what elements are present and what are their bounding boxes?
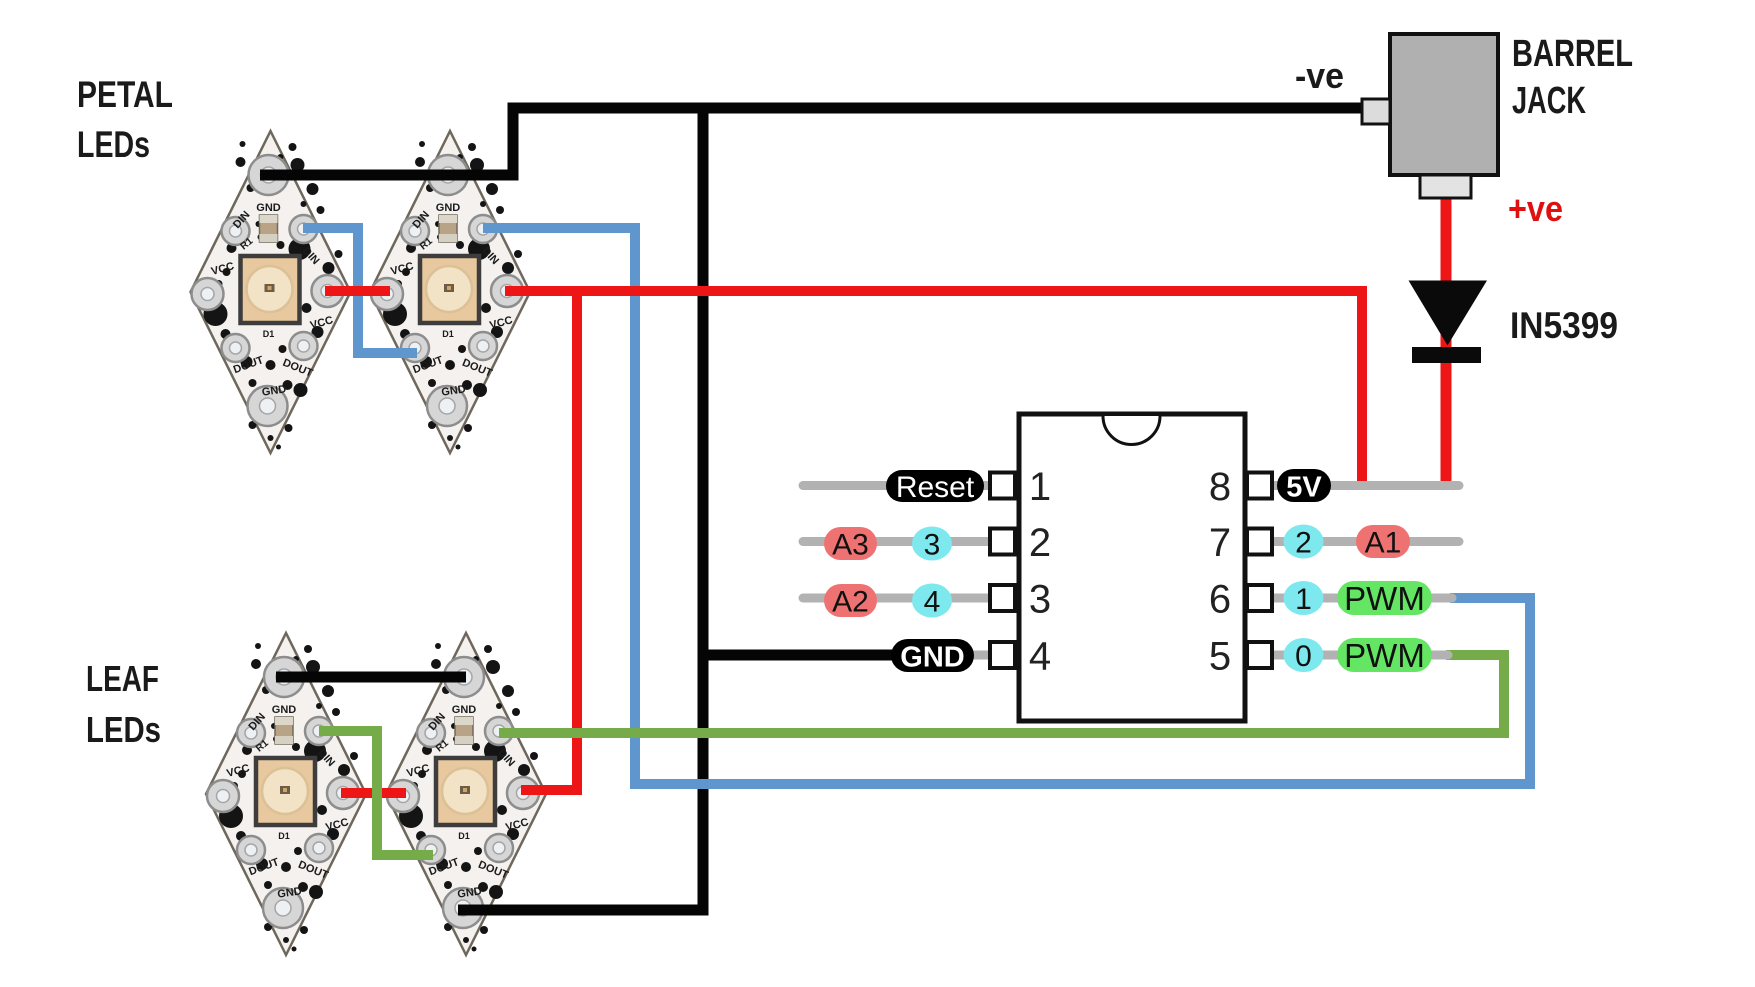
svg-text:LEDs: LEDs <box>86 709 161 750</box>
svg-text:1: 1 <box>1029 465 1051 509</box>
svg-text:A1: A1 <box>1365 527 1402 560</box>
wire red leaf1 VCC to leaf2 VCC <box>341 788 406 798</box>
label digital 4 <box>912 584 952 619</box>
pin square 8 <box>1247 473 1272 499</box>
gray lead pin4 <box>900 651 995 660</box>
svg-text:GND: GND <box>900 642 964 674</box>
svg-text:1: 1 <box>1295 583 1312 616</box>
wire red branch to leaf2 VCC <box>521 286 577 790</box>
svg-text:7: 7 <box>1209 521 1231 565</box>
svg-text:4: 4 <box>1029 635 1051 679</box>
gray lead pin2 <box>803 537 995 546</box>
IC body U1 ATtiny85 <box>1019 414 1245 721</box>
IC notch <box>1103 416 1160 445</box>
gray lead pin3 <box>803 594 995 603</box>
pin square 7 <box>1247 529 1272 555</box>
svg-text:BARREL: BARREL <box>1512 33 1633 75</box>
label digital 2 <box>1284 525 1324 560</box>
wire black bottom to leaf2 GND <box>458 905 709 916</box>
wire red petal2 VCC to 5V rail <box>505 291 1362 484</box>
wire black GND petal1 to barrel jack -ve <box>260 108 1367 175</box>
label A1 <box>1356 525 1410 560</box>
LED board petal 2 <box>370 131 530 453</box>
gray lead pin1 <box>803 481 995 490</box>
wire black leaf1 GND to leaf2 GND <box>276 672 466 683</box>
label Reset <box>886 470 984 504</box>
svg-text:8: 8 <box>1209 465 1231 509</box>
barrel jack body <box>1390 34 1498 175</box>
label A3 <box>824 527 877 562</box>
label 5V <box>1277 469 1331 504</box>
pin square 4 <box>990 642 1015 668</box>
label PWM pin6 <box>1337 580 1432 617</box>
svg-text:Reset: Reset <box>896 471 975 504</box>
wire black GND stub to IC pin4 <box>700 650 895 661</box>
gray lead pin7 <box>1273 537 1459 546</box>
label PWM pin5 <box>1337 637 1432 674</box>
svg-text:PETAL: PETAL <box>77 74 173 115</box>
svg-text:3: 3 <box>924 529 941 562</box>
wire red petal1 VCC to petal2 VCC <box>325 286 390 296</box>
label digital 0 <box>1284 638 1324 673</box>
svg-text:4: 4 <box>924 586 941 619</box>
barrel jack bottom pin <box>1420 175 1471 198</box>
svg-text:5: 5 <box>1209 635 1231 679</box>
wire blue petal1 DIN to petal2 DOUT <box>303 228 417 353</box>
wire black GND trunk vertical <box>698 103 709 910</box>
svg-text:LEAF: LEAF <box>86 658 159 699</box>
wire green leaf2 DIN to IC pin5 PWM <box>499 655 1504 733</box>
label GND <box>891 639 974 674</box>
svg-text:-ve: -ve <box>1295 55 1344 96</box>
svg-text:2: 2 <box>1029 521 1051 565</box>
LED board leaf 2 <box>386 633 546 955</box>
pin square 2 <box>990 529 1015 555</box>
gray lead pin5 <box>1273 651 1448 660</box>
pin square 6 <box>1247 585 1272 611</box>
LED board petal 1 <box>191 131 351 453</box>
svg-text:PWM: PWM <box>1344 637 1425 674</box>
barrel jack left pin <box>1362 99 1390 124</box>
diode IN5399 cathode bar <box>1412 347 1481 363</box>
diode IN5399 triangle <box>1409 281 1488 346</box>
wire red barrel jack +ve through diode <box>1441 197 1452 484</box>
svg-text:2: 2 <box>1295 527 1312 560</box>
svg-text:6: 6 <box>1209 578 1231 622</box>
wire green leaf1 DIN to leaf2 DOUT <box>319 731 433 855</box>
svg-text:PWM: PWM <box>1344 580 1425 617</box>
label A2 <box>824 584 877 619</box>
svg-text:5V: 5V <box>1286 472 1322 504</box>
wire blue petal2 DIN to IC pin6 PWM <box>483 228 1530 784</box>
svg-text:IN5399: IN5399 <box>1510 305 1618 346</box>
gray lead pin6 <box>1273 594 1452 603</box>
svg-text:+ve: +ve <box>1508 188 1563 229</box>
svg-text:A3: A3 <box>832 529 869 562</box>
label digital 3 <box>912 527 952 562</box>
label digital 1 <box>1284 581 1324 616</box>
pin square 5 <box>1247 642 1272 668</box>
pin square 3 <box>990 585 1015 611</box>
svg-text:3: 3 <box>1029 578 1051 622</box>
pin square 1 <box>990 473 1015 499</box>
gray lead pin8 <box>1273 481 1459 490</box>
svg-text:JACK: JACK <box>1512 80 1586 122</box>
svg-text:LEDs: LEDs <box>77 124 150 165</box>
svg-text:A2: A2 <box>832 586 869 619</box>
LED board leaf 1 <box>206 633 366 955</box>
svg-text:0: 0 <box>1295 640 1312 673</box>
